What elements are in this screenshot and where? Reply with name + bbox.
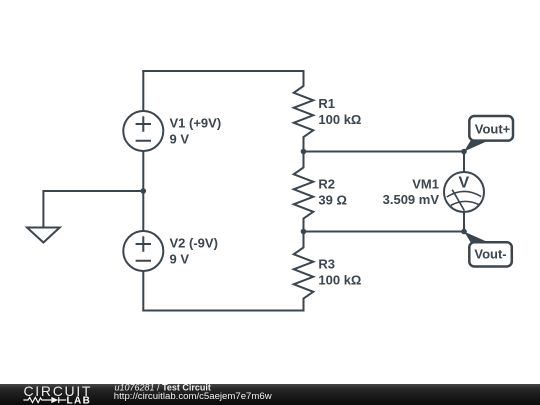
- resistor R2: [294, 152, 314, 232]
- wire top rail: [143, 70, 303, 72]
- svg-text:Vout-: Vout-: [474, 246, 506, 261]
- node junction R1/R2: [301, 149, 307, 155]
- svg-text:R1: R1: [318, 96, 335, 111]
- wire VM1 bottom lead: [463, 212, 465, 232]
- svg-text:R3: R3: [318, 257, 335, 272]
- svg-text:VM1: VM1: [412, 177, 439, 192]
- resistor R3: [294, 232, 314, 311]
- wire V1 top lead: [142, 71, 144, 111]
- wire V1 bottom lead: [142, 151, 144, 191]
- svg-text:100 kΩ: 100 kΩ: [318, 272, 361, 287]
- voltage source V2: [123, 231, 163, 271]
- node junction R2/R3: [301, 229, 307, 235]
- wire V2 bottom lead: [142, 271, 144, 311]
- wire node Vout+ horizontal: [304, 151, 465, 153]
- node Vout+ dot: [461, 149, 467, 155]
- svg-text:9 V: 9 V: [170, 131, 190, 146]
- svg-text:V2 (-9V): V2 (-9V): [170, 236, 218, 251]
- svg-text:3.509 mV: 3.509 mV: [383, 192, 440, 207]
- svg-text:100 kΩ: 100 kΩ: [318, 112, 361, 127]
- svg-text:Vout+: Vout+: [475, 122, 511, 137]
- voltage source V1: [123, 111, 163, 151]
- svg-text:R2: R2: [318, 177, 335, 192]
- flag Vout+: [464, 116, 513, 152]
- svg-text:http://circuitlab.com/c5aejem7: http://circuitlab.com/c5aejem7e7m6w: [114, 391, 272, 402]
- svg-text:V: V: [458, 175, 469, 192]
- wire bottom rail: [143, 310, 303, 312]
- svg-text:39 Ω: 39 Ω: [318, 192, 347, 207]
- ground: [27, 228, 60, 243]
- svg-text:LAB: LAB: [67, 396, 92, 405]
- resistor R1: [294, 71, 314, 152]
- wire VM1 top lead: [463, 152, 465, 173]
- wire node Vout- horizontal: [304, 231, 465, 233]
- svg-text:9 V: 9 V: [170, 251, 190, 266]
- wire V2 top lead: [142, 191, 144, 231]
- logo circuit squiggle: [23, 397, 66, 403]
- node Vout- dot: [461, 229, 467, 235]
- footer bar: [0, 384, 540, 405]
- node junction at V1/V2/ground: [141, 188, 147, 194]
- svg-text:V1 (+9V): V1 (+9V): [170, 116, 222, 131]
- flag Vout-: [464, 232, 512, 267]
- voltmeter VM1: [444, 172, 484, 212]
- wire to ground: [43, 191, 143, 228]
